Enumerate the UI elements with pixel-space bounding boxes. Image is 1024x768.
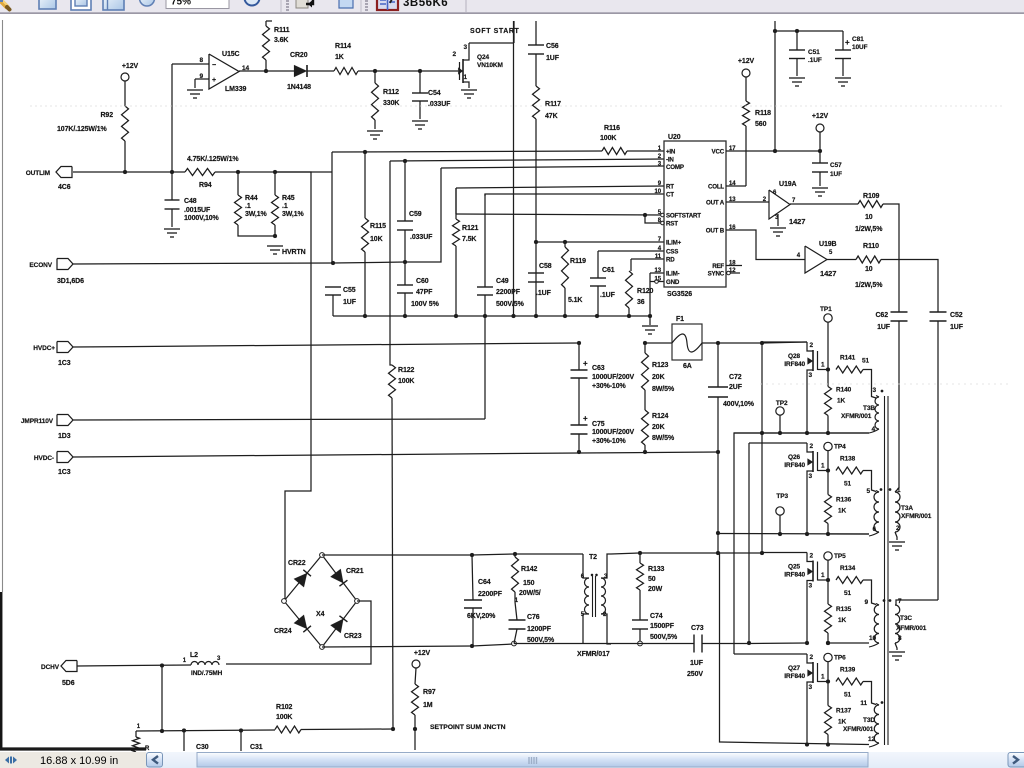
svg-text:5D6: 5D6 [62,680,75,687]
svg-text:20W: 20W [648,586,663,593]
svg-text:R140: R140 [836,387,852,394]
svg-text:CSS: CSS [666,249,678,256]
svg-text:U15C: U15C [222,51,240,58]
svg-text:+: + [583,414,588,423]
svg-text:TP5: TP5 [834,553,846,560]
svg-text:C59: C59 [409,211,422,218]
svg-text:DCHV: DCHV [41,664,60,671]
svg-text:6KV,20%: 6KV,20% [467,613,496,620]
svg-text:51: 51 [844,692,852,699]
svg-text:R111: R111 [274,27,290,34]
svg-text:100K: 100K [398,378,414,385]
svg-text:2: 2 [809,443,813,450]
svg-text:2UF: 2UF [729,384,743,391]
svg-text:CR23: CR23 [344,633,362,640]
svg-text:IRF840: IRF840 [784,572,805,579]
svg-text:L2: L2 [190,652,198,659]
svg-text:7: 7 [792,198,796,204]
svg-text:IND/.75MH: IND/.75MH [191,670,223,677]
svg-text:R44: R44 [245,195,258,202]
svg-text:T3D: T3D [863,717,875,724]
svg-text:XFMR/001: XFMR/001 [843,726,874,733]
svg-text:1: 1 [821,463,825,470]
svg-text:HVDC-: HVDC- [34,455,54,462]
svg-text:10: 10 [655,189,662,195]
svg-text:1C3: 1C3 [58,469,71,476]
svg-text:RD: RD [666,257,675,264]
svg-text:R133: R133 [648,566,665,573]
svg-text:1M: 1M [423,702,433,709]
svg-text:100K: 100K [276,714,292,721]
svg-text:GND: GND [666,279,680,286]
svg-text:ILIM-: ILIM- [666,271,680,278]
svg-text:16.88 x 10.99 in: 16.88 x 10.99 in [40,755,118,767]
svg-text:.0015UF: .0015UF [184,207,211,214]
svg-text:400V,10%: 400V,10% [723,401,755,408]
svg-text:51: 51 [844,481,852,488]
svg-text:IRF840: IRF840 [784,673,805,680]
svg-text:+12V: +12V [122,63,139,70]
svg-text:10: 10 [865,266,873,273]
svg-text:3W,1%: 3W,1% [245,211,268,218]
svg-text:R117: R117 [545,101,561,108]
svg-text:1200PF: 1200PF [527,626,552,633]
svg-text:C76: C76 [527,614,540,621]
svg-text:R114: R114 [335,43,351,50]
svg-text:R94: R94 [199,182,212,189]
svg-text:C56: C56 [546,43,559,50]
svg-text:1K: 1K [838,617,847,624]
svg-text:C51: C51 [808,49,820,56]
svg-text:+IN: +IN [666,149,676,156]
svg-text:SETPOINT SUM JNCTN: SETPOINT SUM JNCTN [430,724,506,731]
svg-text:R110: R110 [863,243,879,250]
svg-text:500V,5%: 500V,5% [650,634,678,641]
svg-text:1UF: 1UF [690,660,704,667]
svg-text:Q24: Q24 [477,54,489,61]
svg-text:T2: T2 [589,554,597,561]
svg-text:R120: R120 [637,288,654,295]
svg-text:C49: C49 [496,278,509,285]
svg-text:8W/5%: 8W/5% [652,435,675,442]
svg-text:51: 51 [844,590,852,597]
svg-text:1: 1 [183,658,187,664]
svg-text:C31: C31 [250,744,263,751]
svg-text:36: 36 [637,299,645,306]
svg-text:1: 1 [821,674,825,681]
svg-text:1N4148: 1N4148 [287,84,311,91]
svg-text:JMPR110V: JMPR110V [21,418,54,425]
svg-text:U20: U20 [668,134,681,141]
svg-text:X4: X4 [316,611,325,618]
svg-text:1: 1 [137,724,141,730]
svg-text:10K: 10K [370,236,383,243]
svg-text:3: 3 [463,44,467,51]
svg-text:R116: R116 [604,125,620,132]
svg-text:3: 3 [808,583,812,590]
svg-text:1: 1 [821,572,825,579]
svg-text:R142: R142 [521,566,538,573]
svg-text:XFMR/001: XFMR/001 [896,625,927,632]
svg-text:CR24: CR24 [274,628,292,635]
svg-text:1UF: 1UF [950,324,964,331]
svg-text:1/2W,5%: 1/2W,5% [855,282,883,289]
svg-text:SG3526: SG3526 [667,291,692,298]
svg-text:2: 2 [809,342,813,349]
svg-text:2: 2 [896,525,900,532]
svg-text:R109: R109 [863,193,880,200]
svg-text:1K: 1K [838,508,847,515]
svg-text:C62: C62 [875,312,888,319]
svg-text:+: + [845,38,850,47]
svg-text:1: 1 [463,74,467,81]
svg-text:HVRTN: HVRTN [282,249,306,256]
svg-text:Q28: Q28 [788,353,800,360]
svg-text:R92: R92 [100,112,113,119]
svg-text:RT: RT [666,184,674,191]
svg-text:100K: 100K [600,135,616,142]
svg-text:5.1K: 5.1K [568,297,582,304]
svg-text:T3C: T3C [900,615,912,622]
svg-text:1K: 1K [335,54,344,61]
svg-text:75%: 75% [171,0,191,8]
svg-text:R139: R139 [840,667,856,674]
svg-text:R134: R134 [840,565,856,572]
svg-text:C73: C73 [691,625,704,632]
svg-text:IRF840: IRF840 [784,361,805,368]
svg-text:OUT A: OUT A [706,200,725,207]
svg-text:1UF: 1UF [546,55,560,62]
svg-text:C30: C30 [196,744,209,751]
svg-text:U19B: U19B [819,241,837,248]
svg-text:1UF: 1UF [830,171,842,178]
svg-text:ECONV: ECONV [29,262,52,269]
svg-text:10: 10 [869,635,877,642]
svg-text:13: 13 [655,268,662,274]
svg-text:CT: CT [666,192,674,199]
svg-text:1UF: 1UF [343,299,357,306]
svg-text:SOFT START: SOFT START [470,28,520,35]
svg-text:C58: C58 [539,263,552,270]
svg-text:4.75K/.125W/1%: 4.75K/.125W/1% [187,156,239,163]
svg-text:C61: C61 [602,267,615,274]
svg-text:CR20: CR20 [290,52,308,59]
svg-text:100V 5%: 100V 5% [411,301,440,308]
svg-text:R137: R137 [836,708,852,715]
svg-text:R45: R45 [282,195,295,202]
svg-text:6: 6 [581,574,585,580]
svg-text:107K/.125W/1%: 107K/.125W/1% [57,126,108,133]
svg-text:R121: R121 [462,225,479,232]
svg-text:1: 1 [821,362,825,369]
svg-text:2: 2 [809,553,813,560]
svg-text:1D3: 1D3 [58,433,71,440]
svg-text:C72: C72 [729,374,742,381]
svg-text:1000UF/200V: 1000UF/200V [592,429,635,436]
svg-text:R122: R122 [398,367,415,374]
svg-text:VCC: VCC [712,149,725,156]
svg-text:4: 4 [797,253,801,259]
svg-text:R118: R118 [755,110,771,117]
svg-text:+: + [212,77,216,84]
svg-text:4: 4 [871,426,875,433]
svg-text:TP1: TP1 [820,306,832,313]
svg-text:2200PF: 2200PF [478,591,503,598]
svg-text:.1: .1 [245,203,251,210]
svg-text:C57: C57 [830,162,842,169]
svg-text:COMP: COMP [666,164,684,171]
svg-text:.1UF: .1UF [600,292,616,299]
svg-text:F1: F1 [676,316,684,323]
svg-text:.1UF: .1UF [536,290,552,297]
svg-text:10UF: 10UF [852,44,868,51]
svg-text:LM339: LM339 [225,86,246,93]
svg-text:C52: C52 [950,312,963,319]
svg-text:5: 5 [829,250,833,256]
svg-text:15: 15 [655,277,662,283]
svg-text:C48: C48 [184,198,197,205]
svg-text:1000V,10%: 1000V,10% [184,215,220,222]
svg-text:250V: 250V [687,671,703,678]
svg-text:−: − [212,62,216,69]
svg-text:TP3: TP3 [776,493,788,500]
svg-text:HVDC+: HVDC+ [33,345,55,352]
svg-text:3B56K6: 3B56K6 [403,0,448,9]
svg-text:10: 10 [865,214,873,221]
svg-text:C60: C60 [416,278,429,285]
svg-text:1427: 1427 [820,269,836,278]
svg-text:R115: R115 [370,223,386,230]
svg-text:50: 50 [648,576,656,583]
svg-text:11: 11 [655,254,662,260]
svg-text:RST: RST [666,221,678,228]
svg-text:R135: R135 [836,606,852,613]
svg-text:3: 3 [808,684,812,691]
svg-text:20W/5/: 20W/5/ [519,590,541,597]
svg-text:TP6: TP6 [834,655,846,662]
svg-text:8: 8 [199,57,203,64]
svg-text:+12V: +12V [738,58,755,65]
svg-text:1UF: 1UF [877,324,891,331]
svg-text:3W,1%: 3W,1% [282,211,305,218]
svg-text:SOFTSTART: SOFTSTART [666,213,701,220]
svg-text:3.6K: 3.6K [274,37,288,44]
svg-text:-IN: -IN [666,157,674,164]
svg-text:SYNC: SYNC [708,271,725,278]
svg-text:+30%-10%: +30%-10% [592,438,627,445]
svg-text:C75: C75 [592,421,605,428]
svg-text:.1UF: .1UF [808,57,822,64]
svg-text:20K: 20K [652,424,665,431]
svg-text:C81: C81 [852,36,864,43]
svg-text:C74: C74 [650,613,663,620]
svg-text:6A: 6A [683,363,692,370]
svg-text:R138: R138 [840,456,856,463]
svg-text:1427: 1427 [789,217,805,226]
svg-text:.1: .1 [282,203,288,210]
svg-text:+12V: +12V [414,650,431,657]
svg-text:C64: C64 [478,579,491,586]
svg-text:7.5K: 7.5K [462,236,476,243]
svg-text:.033UF: .033UF [428,101,451,108]
svg-text:R112: R112 [383,89,399,96]
svg-text:9: 9 [864,599,868,606]
svg-text:2: 2 [809,654,813,661]
svg-text:150: 150 [523,580,535,587]
svg-text:1K: 1K [837,398,846,405]
svg-text:R141: R141 [840,355,856,362]
svg-text:Q27: Q27 [788,665,800,672]
svg-text:ILIM+: ILIM+ [666,240,682,247]
svg-text:3D1,6D6: 3D1,6D6 [57,278,84,285]
svg-text:1/2W,5%: 1/2W,5% [855,226,883,233]
svg-text:+: + [583,359,588,368]
svg-text:TP4: TP4 [834,444,846,451]
svg-text:5: 5 [581,612,585,618]
svg-text:IRF840: IRF840 [784,462,805,469]
svg-text:R124: R124 [652,413,669,420]
svg-text:1K: 1K [838,719,847,726]
svg-text:Q25: Q25 [788,564,800,571]
svg-text:XFMR/001: XFMR/001 [901,513,932,520]
svg-text:7: 7 [898,598,902,605]
svg-text:+12V: +12V [812,113,829,120]
svg-text:47PF: 47PF [416,289,433,296]
svg-text:C55: C55 [343,287,356,294]
svg-text:C63: C63 [592,365,605,372]
svg-text:R97: R97 [423,689,436,696]
svg-text:6: 6 [872,526,876,533]
svg-text:OUT B: OUT B [706,228,725,235]
svg-text:1: 1 [897,487,901,494]
svg-text:500V/5%: 500V/5% [496,301,525,308]
svg-text:3: 3 [808,372,812,379]
svg-text:12: 12 [868,736,876,743]
svg-text:4C6: 4C6 [58,184,71,191]
svg-text:.033UF: .033UF [410,234,433,241]
svg-text:REF: REF [712,263,724,270]
svg-text:2: 2 [452,51,456,58]
svg-text:+30%-10%: +30%-10% [592,383,627,390]
svg-text:R119: R119 [570,258,586,265]
svg-text:1C3: 1C3 [58,360,71,367]
svg-text:3: 3 [872,387,876,394]
svg-text:3: 3 [217,656,221,662]
svg-text:R123: R123 [652,362,669,369]
svg-text:2200PF: 2200PF [496,289,521,296]
svg-text:47K: 47K [545,113,558,120]
svg-text:8W/5%: 8W/5% [652,386,675,393]
svg-text:1000UF/200V: 1000UF/200V [592,374,635,381]
svg-text:20K: 20K [652,374,665,381]
svg-text:OUTLIM: OUTLIM [26,170,50,177]
svg-text:CR21: CR21 [346,568,364,575]
svg-text:CR22: CR22 [288,560,306,567]
svg-text:51: 51 [862,358,870,365]
svg-text:XFMR/001: XFMR/001 [841,413,872,420]
svg-text:T3A: T3A [901,505,913,512]
svg-text:8: 8 [898,635,902,642]
svg-text:560: 560 [755,121,767,128]
svg-text:XFMR/017: XFMR/017 [577,651,610,658]
svg-text:5: 5 [866,488,870,495]
svg-text:C54: C54 [428,90,441,97]
svg-text:VN10KM: VN10KM [477,62,503,69]
svg-text:U19A: U19A [779,181,797,188]
svg-text:COLL: COLL [708,184,724,191]
svg-text:R102: R102 [276,704,293,711]
svg-text:T3B: T3B [863,405,875,412]
svg-text:1500PF: 1500PF [650,623,675,630]
svg-text:Q26: Q26 [788,454,800,461]
svg-text:11: 11 [860,700,867,707]
svg-text:3: 3 [808,473,812,480]
svg-text:TP2: TP2 [776,400,788,407]
svg-text:R136: R136 [836,497,852,504]
